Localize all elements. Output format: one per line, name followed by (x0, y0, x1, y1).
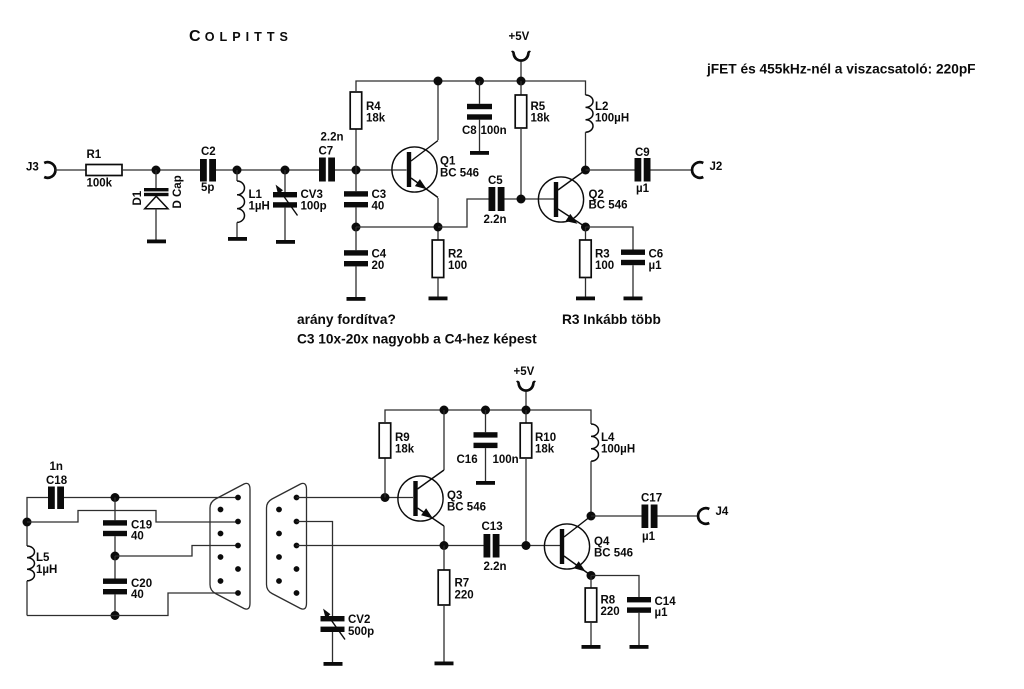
wire node to C9 (586, 169, 635, 171)
svg-text:40: 40 (131, 531, 144, 543)
svg-text:D1: D1 (132, 190, 144, 205)
inductor L4 (591, 424, 635, 516)
svg-text:µ1: µ1 (655, 607, 669, 619)
svg-text:18k: 18k (531, 113, 551, 125)
svg-text:µ1: µ1 (642, 531, 656, 543)
svg-text:COLPITTS: COLPITTS (189, 28, 293, 45)
wire J3 to R1 (55, 169, 87, 171)
svg-text:R5: R5 (531, 101, 546, 113)
capacitor C7 (319, 132, 344, 182)
svg-text:220: 220 (455, 590, 474, 602)
svg-text:+5V: +5V (509, 31, 530, 43)
ground below R8 (582, 645, 601, 649)
svg-text:J4: J4 (716, 506, 729, 518)
svg-text:2.2n: 2.2n (484, 561, 507, 573)
svg-text:40: 40 (372, 201, 385, 213)
annotation arány fordítva? (297, 312, 396, 327)
wire +5V rail (top) (356, 81, 586, 95)
svg-text:Q1: Q1 (440, 156, 456, 168)
svg-text:µ1: µ1 (649, 260, 663, 272)
wire R1 to C2 (122, 169, 200, 171)
svg-text:2.2n: 2.2n (321, 132, 344, 144)
resistor R2 (432, 227, 467, 297)
ground below R2 (429, 297, 448, 301)
svg-text:Q4: Q4 (594, 536, 610, 548)
svg-text:+5V: +5V (514, 366, 535, 378)
svg-text:BC 546: BC 546 (594, 548, 633, 560)
ground below L1 (228, 237, 247, 241)
node C20 bottom junction (111, 611, 120, 620)
svg-text:C8: C8 (462, 125, 477, 137)
svg-text:C7: C7 (319, 146, 334, 158)
svg-text:100k: 100k (87, 178, 113, 190)
svg-text:C3 10x-20x nagyobb a C4-hez ké: C3 10x-20x nagyobb a C4-hez képest (297, 332, 537, 347)
resistor R8 (585, 576, 619, 646)
svg-text:C9: C9 (635, 147, 650, 159)
svg-text:BC 546: BC 546 (440, 168, 479, 180)
wire C13 to Q4 base (500, 545, 561, 547)
svg-text:R3 Inkább több: R3 Inkább több (562, 312, 661, 327)
power +5V (bottom) (514, 366, 536, 410)
capacitor C9 (635, 147, 651, 195)
ground below C14 (630, 645, 649, 649)
wire R10 to Q4 base node (525, 458, 527, 546)
node Q3 emitter junction (440, 541, 449, 550)
node Q2 collector / L2 (581, 166, 590, 175)
ground below C16 (476, 481, 495, 485)
ground below C6 (624, 297, 643, 301)
node R5/C5/Q2 base (517, 195, 526, 204)
capacitor C3 (344, 170, 386, 227)
resistor R4 (350, 92, 386, 129)
capacitor C8 (462, 81, 507, 151)
connector J2 (692, 161, 722, 178)
connector DB9 right (267, 483, 307, 609)
svg-text:100: 100 (595, 260, 614, 272)
wire C7 to Q1 base (335, 169, 407, 171)
svg-text:18k: 18k (395, 444, 415, 456)
node Q1 emitter junction (434, 223, 443, 232)
wire emitter node to C14 (591, 576, 639, 598)
svg-text:220: 220 (601, 606, 620, 618)
svg-text:1µH: 1µH (36, 564, 57, 576)
wire node to C17 (591, 515, 642, 517)
node C8 at rail (475, 77, 484, 86)
wire +5V rail (bottom) (385, 410, 591, 424)
svg-text:R3: R3 (595, 249, 610, 261)
svg-text:CV2: CV2 (348, 614, 370, 626)
resistor R3 (580, 227, 614, 297)
node L1 junction (233, 166, 242, 175)
node base of Q1 (352, 166, 361, 175)
ground below R3 (576, 297, 595, 301)
svg-text:J3: J3 (26, 162, 39, 174)
power +5V (top) (509, 31, 531, 81)
title COLPITTS (189, 28, 293, 45)
svg-text:1n: 1n (50, 461, 63, 473)
svg-text:R1: R1 (87, 149, 102, 161)
wire right DB9 pin2 to CV2 (297, 522, 333, 617)
capacitor C17 (641, 493, 662, 544)
svg-text:2.2n: 2.2n (484, 214, 507, 226)
svg-text:R2: R2 (448, 249, 463, 261)
capacitor C18 (46, 461, 68, 509)
capacitor C19 (103, 498, 152, 557)
variable capacitor CV2 (321, 609, 375, 662)
wire right DB9 pin3 to C13 row (297, 545, 484, 547)
svg-text:Q3: Q3 (447, 490, 462, 502)
resistor R7 (438, 546, 473, 662)
svg-text:20: 20 (372, 260, 385, 272)
svg-text:L1: L1 (249, 189, 263, 201)
svg-text:100p: 100p (301, 201, 327, 213)
svg-text:C18: C18 (46, 475, 68, 487)
wire C5 to Q2 base (505, 198, 555, 200)
capacitor C5 (484, 175, 507, 226)
svg-text:R8: R8 (601, 595, 616, 607)
node Q2 emitter junction (581, 223, 590, 232)
transistor Q3 (398, 410, 486, 546)
connector DB9 left (210, 483, 250, 609)
node C18/C19 junction (111, 493, 120, 502)
svg-text:40: 40 (131, 589, 144, 601)
node Q4 collector / L4 (587, 512, 596, 521)
node Q3 collector at rail (440, 406, 449, 415)
wire emitter node to C5 (438, 199, 489, 227)
svg-text:jFET és 455kHz-nél a viszacsat: jFET és 455kHz-nél a viszacsatoló: 220pF (706, 62, 976, 77)
wire bottom to left DB9 pin 5 (jog) (27, 593, 238, 616)
svg-text:5p: 5p (201, 182, 214, 194)
svg-text:18k: 18k (366, 113, 386, 125)
ground below D1 (147, 240, 166, 244)
svg-text:L2: L2 (595, 101, 608, 113)
ground below CV2 (324, 662, 343, 666)
svg-text:BC 546: BC 546 (447, 502, 486, 514)
svg-text:R10: R10 (535, 432, 556, 444)
annotation R3 Inkább több (562, 312, 661, 327)
variable capacitor CV3 (273, 170, 327, 240)
svg-text:C3: C3 (372, 189, 387, 201)
capacitor C2 (200, 146, 216, 194)
node Q1 collector at rail (434, 77, 443, 86)
capacitor C14 (627, 596, 676, 645)
svg-text:C2: C2 (201, 146, 216, 158)
node C19/C20 junction (111, 552, 120, 561)
resistor R1 (86, 149, 122, 190)
svg-text:100n: 100n (481, 125, 507, 137)
svg-text:L4: L4 (601, 432, 615, 444)
wire C3 node to emitter node (356, 226, 438, 228)
svg-text:100n: 100n (493, 454, 519, 466)
wire C9 to J2 (651, 169, 694, 171)
inductor L2 (586, 95, 630, 170)
transistor Q2 (538, 170, 627, 227)
wire C2 to C7 (216, 169, 319, 171)
wire emitter node to C6 (586, 227, 634, 250)
svg-text:C13: C13 (482, 521, 503, 533)
wire C17 to J4 (658, 515, 699, 517)
annotation C3 10x-20x note (297, 332, 537, 347)
svg-text:R7: R7 (455, 578, 470, 590)
wire node to R4 (355, 92, 357, 170)
annotation jFET note (706, 62, 976, 77)
capacitor C4 (344, 227, 387, 297)
inductor L1 (237, 170, 270, 237)
wire right DB9 pin1 to Q3 base (297, 497, 414, 499)
svg-text:C17: C17 (641, 493, 662, 505)
capacitor C13 (482, 521, 507, 573)
wire C18 to left DB9 pin 1 (64, 497, 238, 499)
svg-text:arány fordítva?: arány fordítva? (297, 312, 396, 327)
svg-text:100µH: 100µH (595, 113, 629, 125)
capacitor C16 (457, 410, 519, 481)
node Q4 emitter junction (587, 571, 596, 580)
ground below CV3 (276, 240, 295, 244)
resistor R9 (379, 423, 415, 458)
svg-text:J2: J2 (710, 161, 723, 173)
wire C19 node to left DB9 pin 3 (jog) (115, 546, 238, 557)
node L5 top junction (23, 518, 32, 527)
transistor Q1 (392, 81, 479, 227)
capacitor C6 (621, 249, 663, 297)
connector J4 (698, 506, 729, 524)
ground below R7 (435, 662, 454, 666)
svg-text:R9: R9 (395, 432, 410, 444)
node CV3 junction (281, 166, 290, 175)
ground below C8 (470, 151, 489, 155)
resistor R10 (520, 410, 556, 458)
node R1/D1 junction (152, 166, 161, 175)
svg-text:18k: 18k (535, 444, 555, 456)
svg-text:BC 546: BC 546 (589, 200, 628, 212)
node +5V/R10 at rail (522, 406, 531, 415)
wire R9 bottom (384, 458, 386, 498)
svg-text:100µH: 100µH (601, 444, 635, 456)
wire R5 to Q2 base node (520, 128, 522, 199)
svg-text:100: 100 (448, 260, 467, 272)
svg-text:C6: C6 (649, 249, 664, 261)
capacitor C20 (103, 556, 152, 616)
inductor L5 (27, 546, 57, 616)
node C3/C4 junction (352, 223, 361, 232)
diode D1 (varicap) (132, 170, 184, 240)
svg-text:C5: C5 (488, 175, 503, 187)
transistor Q4 (544, 516, 633, 576)
svg-text:L5: L5 (36, 552, 50, 564)
svg-text:D Cap: D Cap (172, 175, 184, 208)
connector J3 (26, 162, 55, 178)
node R9/Q3 base (381, 493, 390, 502)
svg-text:R4: R4 (366, 101, 381, 113)
resistor R5 (515, 81, 550, 128)
ground below C4 (347, 297, 366, 301)
wire C18 left to L5 branch (27, 498, 48, 547)
node R10/C13/Q4 base (522, 541, 531, 550)
svg-text:C4: C4 (372, 249, 387, 261)
svg-text:1µH: 1µH (249, 201, 270, 213)
svg-text:500p: 500p (348, 626, 374, 638)
svg-text:CV3: CV3 (301, 189, 323, 201)
svg-text:µ1: µ1 (636, 183, 650, 195)
svg-text:C16: C16 (457, 454, 478, 466)
node +5V/R5 at rail (517, 77, 526, 86)
node C16 at rail (481, 406, 490, 415)
wire L5 node to left DB9 pin 2 (jog) (27, 511, 238, 523)
